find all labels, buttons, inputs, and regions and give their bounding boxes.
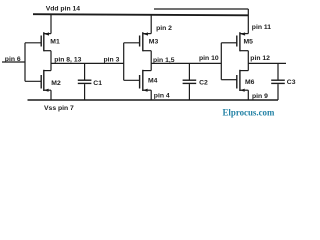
svg-text:C3: C3 — [287, 79, 296, 86]
svg-text:pin 11: pin 11 — [252, 24, 271, 31]
wire upper rail from pin 2 to pin 11 — [154, 8, 248, 10]
wire node pin 12 — [248, 62, 286, 64]
svg-text:pin 12: pin 12 — [250, 55, 270, 62]
transistor M3 (PMOS) — [140, 32, 152, 51]
svg-text:pin 2: pin 2 — [156, 25, 172, 32]
svg-text:pin 1,5: pin 1,5 — [153, 57, 175, 64]
wire pin 6 input stub — [2, 61, 25, 63]
svg-text:pin 6: pin 6 — [5, 56, 21, 63]
transistor M4 (NMOS) — [140, 70, 152, 92]
wire inverter2 gate input vertical — [123, 43, 125, 81]
svg-text:M6: M6 — [245, 79, 255, 86]
svg-text:Vdd pin 14: Vdd pin 14 — [46, 6, 81, 13]
wire node pin 8,13 / pin 3 — [51, 62, 124, 64]
svg-text:M5: M5 — [244, 39, 254, 46]
wire inverter1 output vertical — [50, 51, 52, 71]
capacitor C2 — [183, 63, 197, 100]
wire M2 gate lead — [25, 80, 41, 82]
svg-text:pin 8, 13: pin 8, 13 — [54, 56, 81, 63]
wire node pin 1,5 / pin 10 — [151, 62, 221, 64]
wire M3 gate lead — [124, 42, 140, 44]
wire M2 source vertical to Vss — [50, 90, 52, 100]
svg-text:Elprocus.com: Elprocus.com — [223, 108, 275, 118]
wire inverter2 output vertical — [150, 51, 152, 71]
wire M6 source vertical to Vss — [247, 90, 249, 100]
wire M1 gate lead — [25, 42, 41, 44]
wire inverter3 gate input vertical — [220, 43, 222, 80]
wire inverter1 gate input vertical — [24, 43, 26, 82]
wire M5 gate lead — [221, 42, 237, 44]
transistor M5 (PMOS) — [237, 32, 249, 51]
wire M5 source vertical to Vdd — [247, 9, 249, 34]
wire M4 source vertical to Vss — [150, 90, 152, 100]
svg-text:M3: M3 — [149, 39, 159, 46]
wire M6 gate lead — [221, 79, 237, 81]
capacitor C1 — [78, 63, 92, 100]
capacitor C3 — [271, 63, 285, 100]
svg-text:M2: M2 — [51, 80, 61, 87]
svg-text:pin 9: pin 9 — [252, 93, 268, 100]
Vdd rail (pin 14) — [33, 14, 248, 15]
svg-text:C2: C2 — [199, 79, 208, 86]
transistor M2 (NMOS) — [41, 70, 51, 92]
svg-text:pin 4: pin 4 — [154, 93, 170, 100]
svg-text:pin 3: pin 3 — [104, 57, 120, 64]
svg-text:Vss pin 7: Vss pin 7 — [44, 105, 74, 112]
wire M1 source vertical to Vdd — [50, 14, 52, 33]
svg-text:C1: C1 — [93, 80, 102, 87]
transistor M6 (NMOS) — [237, 70, 249, 92]
wire M3 source vertical to Vdd — [150, 15, 152, 34]
wire M4 gate lead — [124, 79, 140, 81]
transistor M1 (PMOS) — [41, 32, 51, 51]
Vss rail (pin 7) — [28, 99, 279, 101]
svg-text:pin 10: pin 10 — [199, 55, 219, 62]
svg-text:M1: M1 — [50, 38, 60, 45]
wire inverter3 output vertical — [247, 51, 249, 71]
svg-text:M4: M4 — [148, 78, 158, 85]
